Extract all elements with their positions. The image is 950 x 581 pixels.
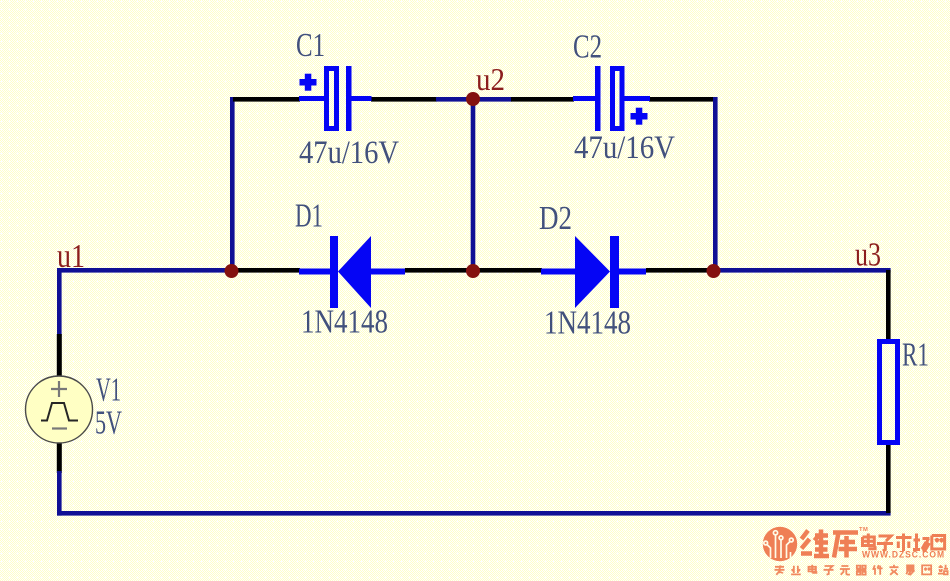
value 1N4148 of D2 [544,305,631,342]
label C1 [296,27,325,64]
label V1 [96,372,121,409]
value 1N4148 of D1 [301,304,388,341]
logo text wang [932,536,945,550]
logo text shi [896,534,912,552]
wire middle horizontal black center junction to D2 [476,268,542,273]
diode D1 [299,236,405,308]
capacitor C1 [299,66,372,131]
logo text 库 [833,533,858,558]
wire middle horizontal navy right junction to u3 corner [710,268,891,273]
wire top horizontal navy stub around u2 [436,97,512,102]
wire left vertical navy to bottom corner [57,471,62,516]
resistor R1 [880,342,898,443]
junction dot right (C2 branch on u3 net) [707,264,721,278]
wire right top corner vertical (C2 branch) [713,97,718,272]
wire top horizontal black segment u2 to C2 [511,97,574,102]
logo TM mark [859,527,868,533]
wire right vertical black u3 corner to R1 [886,270,891,341]
svg-text:C2: C2 [573,29,602,66]
svg-text:TM: TM [859,527,868,533]
svg-text:u1: u1 [57,238,85,275]
label C2 [573,29,602,66]
svg-text:C1: C1 [296,27,325,64]
value 47u/16V of C1 [299,135,399,171]
wire top horizontal black segment C1 to u2 stub [371,97,437,102]
diode D2 [541,236,646,308]
wire left vertical navy u1 corner down [57,268,62,336]
label D2 [539,200,572,237]
capacitor C2 [573,66,650,131]
svg-text:47u/16V: 47u/16V [574,130,675,166]
value 47u/16V of C2 [574,130,675,166]
wire V1 top pin black [57,334,62,378]
wire middle horizontal black junction to D1 [232,268,300,273]
svg-text:u3: u3 [855,237,881,274]
logo url www.dzsc.com [862,550,945,560]
svg-text:47u/16V: 47u/16V [299,135,399,171]
label D1 [295,198,323,235]
wire u2 vertical (top dot to middle dot) [471,99,476,271]
svg-text:D1: D1 [295,198,323,235]
svg-text:WWW.DZSC.COM: WWW.DZSC.COM [862,550,945,560]
svg-text:R1: R1 [902,337,929,374]
voltage source V1 [26,376,93,443]
wire bottom horizontal navy [57,511,891,516]
wire right vertical black R1 to bottom [886,443,891,513]
wire top horizontal black segment C2 to right corner [649,97,715,102]
node u2 label [476,62,505,97]
svg-text:1N4148: 1N4148 [301,304,388,341]
svg-text:5V: 5V [95,405,122,442]
wire top-left corner vertical (C1 branch) [230,97,235,272]
node u3 label [855,237,881,274]
junction dot at u2 (top) [466,92,480,106]
value 5V of V1 [95,405,122,442]
wire middle horizontal navy u1 to first junction [57,268,234,273]
wire middle horizontal black D2 to right junction [646,268,710,273]
node u1 label [57,238,85,275]
svg-text:u2: u2 [476,62,505,97]
logo text zi [877,536,893,551]
wire top horizontal black segment corner to C1 [233,97,300,102]
label R1 [902,337,929,374]
svg-text:1N4148: 1N4148 [544,305,631,342]
wire V1 bottom pin black [57,441,62,473]
logo slogan line [775,565,949,575]
svg-text:D2: D2 [539,200,572,237]
junction dot center (u2 net middle) [466,264,480,278]
junction dot left (C1 branch on u1 net) [225,264,239,278]
logo text 维 [801,530,829,558]
wire middle horizontal black D1 to center junction [405,268,470,273]
logo watermark dzsc [763,527,797,561]
logo text dian [863,534,876,549]
svg-text:V1: V1 [96,372,121,409]
logo text chang [913,534,930,552]
